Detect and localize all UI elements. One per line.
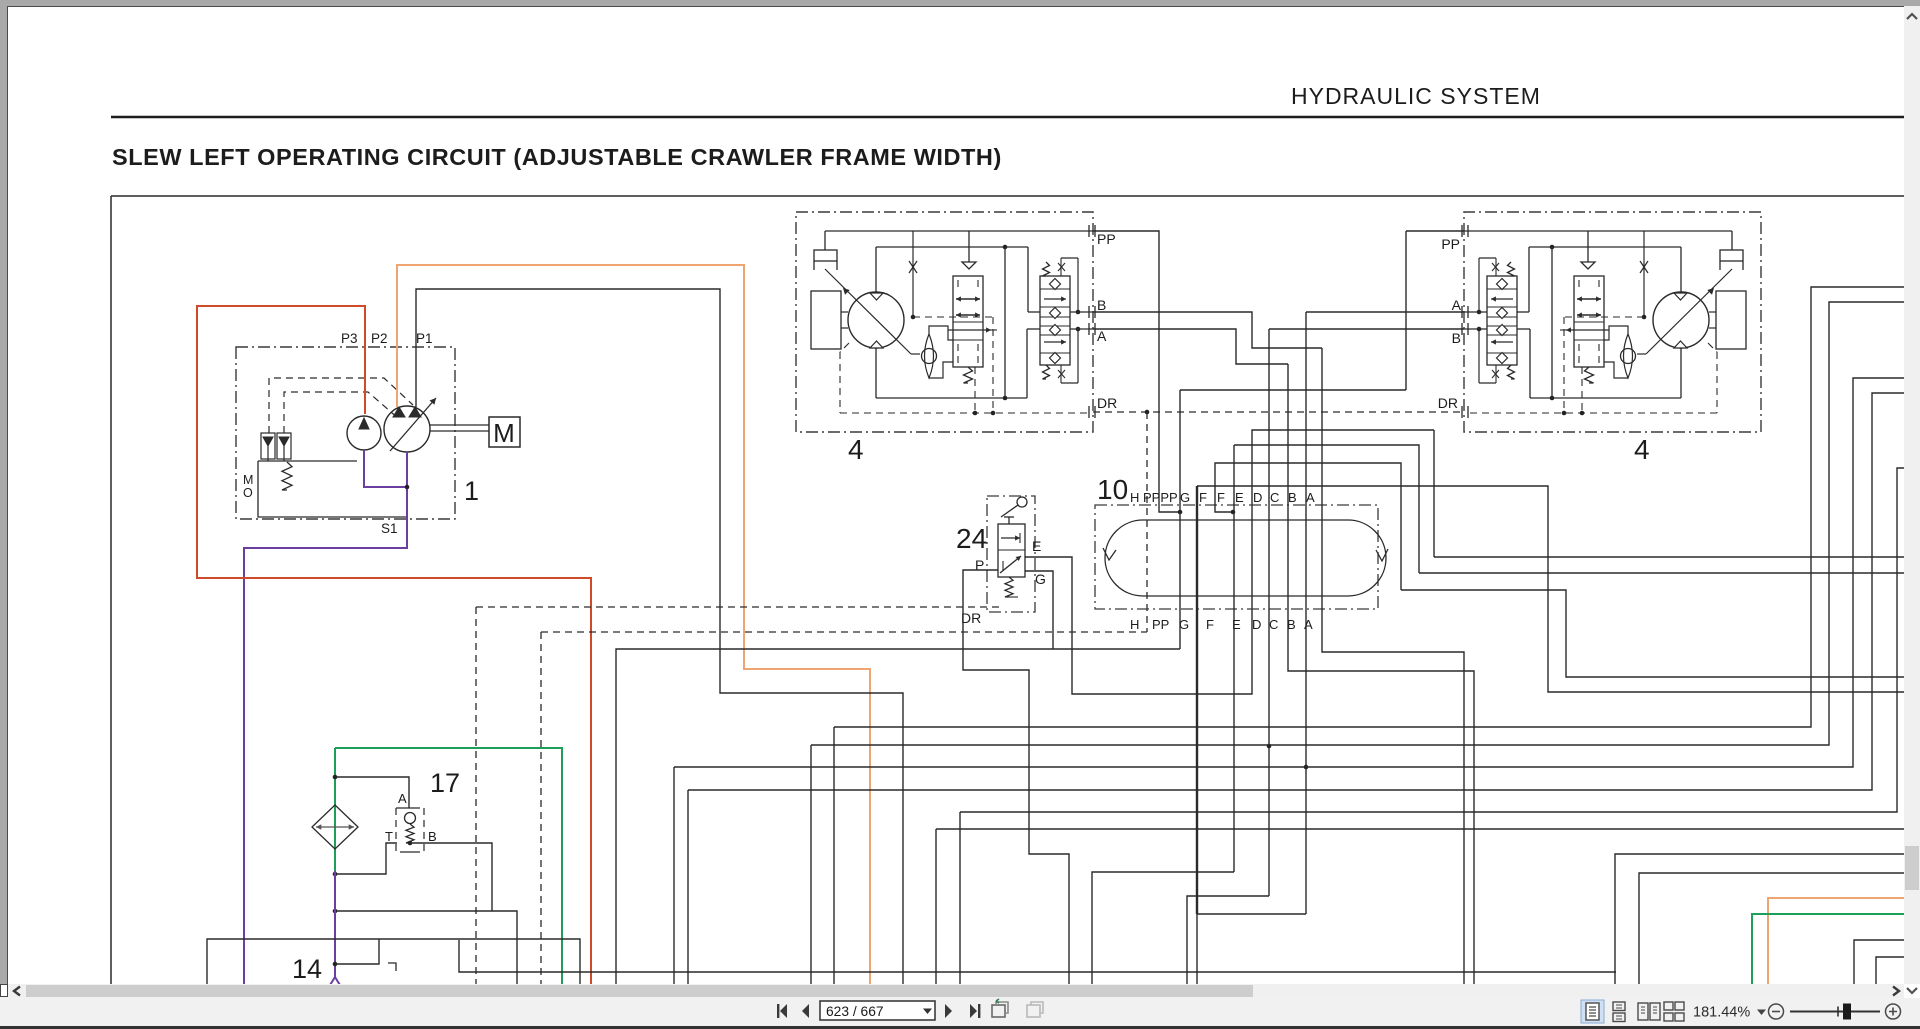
- servo piston: [1716, 291, 1746, 349]
- svg-text:M: M: [243, 473, 253, 487]
- distribution line y829: [936, 828, 1904, 830]
- zoom in button: [1886, 1004, 1901, 1019]
- small level mark: [388, 963, 396, 971]
- swivel line PP: [1179, 390, 1181, 649]
- staircase line right edge y590: [1401, 590, 1904, 677]
- svg-text:1: 1: [464, 476, 479, 506]
- tank rail: [335, 911, 517, 985]
- drain dashed run H to tank: [541, 631, 1147, 633]
- wire PP left motor to swivel: [1093, 231, 1180, 512]
- B port rail: [1464, 311, 1487, 313]
- hydraulic motor circle: [848, 292, 904, 348]
- wire right motor A to swivel B: [1306, 311, 1464, 313]
- swivel line A: [1322, 348, 1464, 985]
- throttle X line: [912, 231, 914, 316]
- zoom slider: [1790, 1011, 1880, 1013]
- pump spring: [282, 462, 292, 490]
- svg-text:H: H: [1130, 490, 1139, 505]
- last page button: [970, 1004, 977, 1018]
- bottom-right frame line 3: [1854, 940, 1904, 985]
- bottom rail: [875, 348, 877, 398]
- servo piston: [811, 291, 841, 349]
- green pilot wire: [335, 748, 562, 985]
- scroll right arrow: [1893, 987, 1899, 996]
- svg-text:DR: DR: [1438, 395, 1458, 411]
- check (fish) valve: [1624, 334, 1633, 378]
- swash control box: [814, 250, 837, 261]
- svg-text:181.44%: 181.44%: [1693, 1005, 1750, 1021]
- svg-text:A: A: [1097, 328, 1107, 344]
- PP rail: [825, 230, 1093, 232]
- port tick DR: [1467, 406, 1469, 418]
- layout icon single page (active): [1581, 1000, 1604, 1023]
- counterbalance spool valve: [968, 231, 970, 262]
- bottom-right green wire: [1752, 914, 1904, 985]
- case dashed boundary: [913, 316, 993, 318]
- wire G of valve 24: [1025, 571, 1053, 649]
- check (fish) valve: [925, 334, 934, 378]
- filter diamond: [312, 805, 358, 849]
- tank bottom rail: [459, 940, 1616, 972]
- wire B of valve 17: [410, 843, 492, 911]
- left gray strip: [0, 6, 7, 984]
- svg-text:DR: DR: [961, 610, 981, 626]
- drain drop to swivel H (dashed): [1146, 412, 1148, 632]
- port tick A: [1088, 323, 1090, 335]
- wire left motor B to swivel A: [1093, 312, 1322, 348]
- svg-text:P1: P1: [416, 331, 433, 346]
- swivel line D: [1268, 329, 1270, 896]
- throttle X line: [1643, 231, 1645, 316]
- swivel stadium ring: [1105, 520, 1386, 596]
- valve 24 body: [998, 524, 1025, 577]
- svg-text:14: 14: [292, 954, 322, 984]
- svg-text:D: D: [1253, 490, 1262, 505]
- pump internal dashed pilot lines: [269, 378, 413, 433]
- shuttle pilot springs and throttles: [1043, 262, 1050, 276]
- wire T of valve 17: [335, 843, 397, 874]
- A port rail: [1464, 328, 1487, 330]
- valve 24 lever: [1017, 497, 1027, 507]
- svg-text:F: F: [1199, 490, 1207, 505]
- motor case drain dashed: [840, 343, 849, 352]
- swivel line C: [1288, 364, 1474, 985]
- bottom-right frame line 4: [1876, 957, 1904, 985]
- page border top: [7, 6, 1904, 7]
- bottom-right frame line 2: [1639, 873, 1904, 985]
- port tick PP: [1088, 225, 1090, 237]
- scroll corner box: [0, 984, 8, 997]
- rotate/page tool icon 2: [1027, 1002, 1043, 1017]
- svg-text:4: 4: [1634, 434, 1650, 465]
- swash link arrow: [1646, 269, 1732, 354]
- shuttle pilot springs and throttles: [1508, 262, 1515, 276]
- svg-text:PPPP: PPPP: [1143, 490, 1178, 505]
- wire left motor A to swivel C: [1093, 329, 1288, 364]
- drain dashed line from pilot valve: [476, 606, 1000, 608]
- port tick B: [1467, 306, 1469, 318]
- svg-text:623 / 667: 623 / 667: [826, 1004, 884, 1019]
- page number box: [820, 1001, 935, 1020]
- svg-text:P3: P3: [341, 331, 358, 346]
- svg-text:17: 17: [430, 768, 460, 798]
- diagram border frame: [111, 195, 1920, 197]
- B port rail: [1070, 311, 1093, 313]
- svg-text:H: H: [1130, 617, 1139, 632]
- bottom-right frame line 1: [1615, 854, 1904, 985]
- spool spring: [964, 367, 973, 383]
- svg-text:A: A: [1306, 490, 1315, 505]
- inner rail: [876, 246, 1028, 248]
- svg-text:G: G: [1035, 571, 1046, 587]
- breather stub: [335, 939, 379, 964]
- svg-text:A: A: [1452, 297, 1462, 313]
- port tick DR: [1088, 406, 1090, 418]
- svg-text:B: B: [1452, 330, 1461, 346]
- svg-text:G: G: [1180, 490, 1190, 505]
- port tick PP: [1467, 225, 1469, 237]
- svg-text:F: F: [1217, 490, 1225, 505]
- PP rail: [1464, 230, 1732, 232]
- scroll down arrow: [1907, 988, 1917, 993]
- DR drain dashed line between motors: [1093, 411, 1462, 413]
- vertical scrollbar: [1904, 6, 1920, 984]
- swivel line F: [1234, 445, 1419, 573]
- layout icon continuous: [1613, 1002, 1625, 1022]
- svg-text:E: E: [1032, 538, 1041, 554]
- hydraulic motor circle: [1653, 292, 1709, 348]
- distribution line y812: [960, 468, 1904, 812]
- pump lower gallery box: [258, 461, 407, 517]
- horizontal rule under header: [111, 116, 1920, 119]
- left travel motor group 4: [796, 212, 1095, 432]
- svg-text:PP: PP: [1441, 236, 1460, 252]
- svg-text:E: E: [1235, 490, 1244, 505]
- distribution line y727: [834, 287, 1904, 727]
- bottom toolbar: [0, 998, 1920, 1026]
- tank return rail from swivel PP: [616, 649, 1180, 985]
- staircase line right edge y573: [1419, 572, 1904, 574]
- svg-text:B: B: [1097, 297, 1106, 313]
- relief valves (double check) in pump: [261, 433, 275, 459]
- svg-text:A: A: [398, 791, 407, 806]
- bottom rail: [1680, 348, 1682, 398]
- svg-text:PP: PP: [1152, 617, 1169, 632]
- wire P of valve 24: [963, 570, 1069, 985]
- delivery wire P2 (orange): [397, 265, 870, 985]
- swivel line F1 jog: [1215, 463, 1401, 590]
- inner rail: [1529, 246, 1681, 248]
- svg-text:24: 24: [956, 523, 987, 554]
- pilot pump P3 circle: [347, 416, 381, 450]
- main pump P1/P2 circle (variable): [384, 406, 430, 452]
- svg-text:HYDRAULIC SYSTEM: HYDRAULIC SYSTEM: [1291, 83, 1541, 109]
- previous page button: [802, 1004, 809, 1018]
- right travel motor group 4 (mirror): [1462, 212, 1761, 432]
- rotate/page tool icon 1: [992, 999, 1008, 1017]
- svg-text:O: O: [243, 486, 253, 500]
- swivel line G (thick): [1196, 486, 1198, 914]
- svg-text:T: T: [385, 829, 393, 844]
- delivery wire P1 (black): [416, 289, 903, 985]
- page border left: [7, 6, 8, 984]
- svg-text:D: D: [1252, 617, 1261, 632]
- swash link arrow: [825, 269, 911, 354]
- svg-text:4: 4: [848, 434, 864, 465]
- svg-text:B: B: [428, 829, 437, 844]
- staircase line right edge y557: [1434, 556, 1904, 558]
- pump unit 1: dash-dot enclosure: [236, 347, 455, 519]
- svg-text:S1: S1: [381, 521, 398, 536]
- svg-text:10: 10: [1097, 474, 1128, 505]
- top gray strip: [0, 0, 1920, 6]
- svg-text:C: C: [1269, 617, 1278, 632]
- scroll left arrow: [14, 987, 20, 996]
- horizontal scrollbar row: [0, 984, 1904, 998]
- horizontal scroll thumb: [26, 985, 1253, 997]
- distribution line y767: [674, 378, 1904, 767]
- svg-text:DR: DR: [1097, 395, 1117, 411]
- valve 24 spring detent: [1005, 577, 1013, 597]
- A port rail: [1070, 328, 1093, 330]
- wire PP right motor to swivel: [1406, 230, 1464, 232]
- svg-text:P2: P2: [371, 331, 388, 346]
- swivel joint 10: dash-dot enclosure: [1095, 505, 1378, 609]
- wire E of valve 24 to motors: [1025, 430, 1434, 694]
- case dashed boundary: [1564, 316, 1644, 318]
- port tick B: [1088, 306, 1090, 318]
- electric motor M box and shaft: [430, 424, 489, 426]
- svg-text:PP: PP: [1097, 231, 1116, 247]
- bottom-right orange wire: [1768, 898, 1904, 985]
- shuttle check block: [1040, 276, 1070, 365]
- svg-text:F: F: [1206, 617, 1214, 632]
- distribution line y745: [811, 302, 1904, 745]
- scroll up arrow: [1907, 14, 1917, 19]
- travel motor 4: dash-dot enclosure: [1464, 212, 1761, 432]
- layout icon cover facing: [1664, 1002, 1684, 1021]
- bottom dark strip: [0, 1026, 1920, 1029]
- motor case drain dashed: [1708, 343, 1717, 352]
- swash control box: [1720, 250, 1743, 261]
- spool spring: [1585, 367, 1594, 383]
- tank box: [207, 939, 580, 985]
- swivel line B: [1305, 312, 1307, 914]
- svg-text:B: B: [1288, 490, 1297, 505]
- distribution line y790: [688, 393, 1904, 790]
- first page button: [780, 1004, 787, 1018]
- travel motor 4: dash-dot enclosure: [796, 212, 1093, 432]
- shuttle check block: [1487, 276, 1517, 365]
- svg-text:SLEW LEFT OPERATING CIRCUIT (A: SLEW LEFT OPERATING CIRCUIT (ADJUSTABLE …: [112, 144, 1002, 170]
- check relief valve 17: [395, 808, 397, 852]
- svg-text:M: M: [493, 418, 515, 448]
- counterbalance spool valve: [1587, 231, 1589, 262]
- delivery wire P3 (red): [197, 306, 591, 985]
- suction line to pump 14 (purple): [334, 871, 336, 977]
- svg-text:C: C: [1270, 490, 1279, 505]
- zoom out button: [1769, 1004, 1784, 1019]
- vertical scroll thumb: [1905, 846, 1919, 890]
- wire right motor B to swivel D: [1269, 328, 1464, 330]
- suction wire S1 (purple): [364, 450, 407, 487]
- port tick A: [1467, 323, 1469, 335]
- layout icon facing: [1638, 1003, 1660, 1020]
- pilot valve 24: dash-dot enclosure: [987, 496, 1035, 612]
- wire A of valve 17: [335, 777, 409, 808]
- next page button: [945, 1004, 952, 1018]
